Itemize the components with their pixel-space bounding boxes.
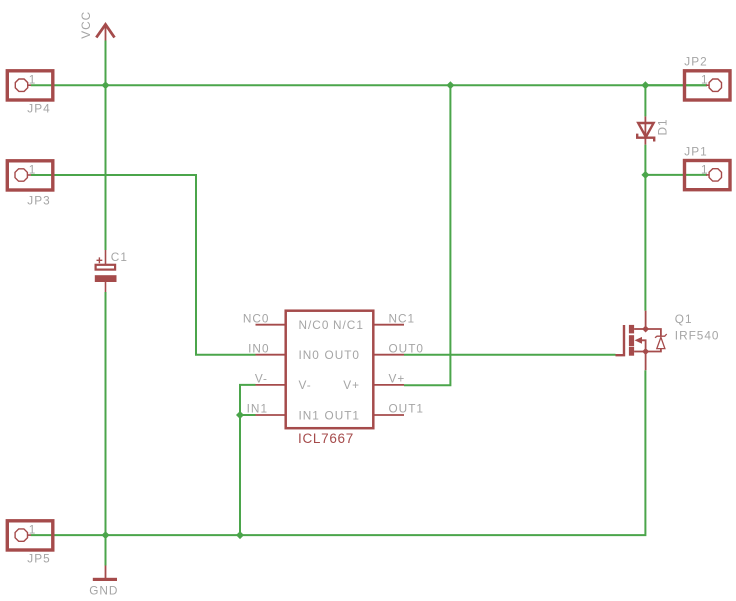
svg-text:JP5: JP5 [27, 551, 50, 565]
pin V+ stub [375, 384, 405, 386]
svg-text:1: 1 [29, 163, 37, 177]
junction D1/JP2/top-rail [641, 81, 649, 89]
svg-text:1: 1 [29, 73, 37, 87]
svg-text:OUT1: OUT1 [389, 402, 424, 416]
capacitor C1 [95, 250, 117, 292]
pin N/C1 stub [375, 324, 405, 326]
wire top rail to D1 anode [644, 85, 646, 116]
source connection [634, 351, 646, 353]
svg-text:V+: V+ [389, 372, 406, 386]
svg-text:N/C1: N/C1 [333, 318, 364, 332]
drain stem [645, 311, 647, 329]
svg-text:JP1: JP1 [684, 144, 707, 158]
body diode triangle [657, 337, 665, 348]
svg-text:Q1: Q1 [675, 312, 693, 326]
body link [642, 340, 646, 351]
wire D1 cathode to Q1 drain [644, 145, 646, 311]
wire JP3 to IN0 [31, 175, 256, 355]
connector JP2 [685, 71, 731, 100]
svg-text:D1: D1 [656, 118, 670, 135]
pin N/C0 stub [256, 324, 285, 326]
svg-text:ICL7667: ICL7667 [298, 431, 354, 446]
svg-text:JP4: JP4 [27, 102, 50, 116]
junction IN1 branch [236, 411, 244, 419]
wire JP1 branch [645, 174, 707, 176]
wire GND symbol stub [105, 535, 107, 565]
channel bar middle [629, 335, 634, 346]
drain connection [634, 328, 646, 330]
ground symbol [93, 566, 117, 582]
channel bar bottom [629, 347, 634, 356]
junction GND stub/bottom rail [102, 531, 110, 539]
wire VCC net top rail [31, 84, 707, 86]
svg-text:OUT0: OUT0 [325, 348, 360, 362]
diode D1 (zener) [637, 116, 654, 144]
transistor Q1 IRF540 [616, 311, 667, 371]
pin OUT0 stub [375, 354, 405, 356]
svg-text:V+: V+ [343, 378, 360, 392]
connector JP4 [7, 71, 53, 100]
junction JP1 branch [641, 171, 649, 179]
gate lead [616, 325, 625, 355]
wire V+ riser to top rail [404, 85, 450, 385]
op-amp/driver IC U1 ICL7667 body [286, 311, 374, 429]
svg-text:NC1: NC1 [389, 311, 416, 325]
svg-text:1: 1 [29, 523, 37, 537]
svg-text:IN1: IN1 [247, 402, 268, 416]
svg-text:C1: C1 [111, 250, 128, 264]
wire VCC rail down to C1 top [105, 85, 107, 250]
source stem [645, 352, 647, 371]
junction IN1 riser/bottom rail [236, 531, 244, 539]
pin OUT1 stub [375, 414, 405, 416]
wire JP2 branch [645, 84, 707, 86]
body arrow [635, 337, 643, 344]
svg-text:N/C0: N/C0 [299, 318, 330, 332]
svg-text:JP2: JP2 [684, 55, 707, 69]
connector JP5 [7, 521, 53, 550]
wire VCC stem below arrow [105, 41, 107, 86]
svg-text:IN1: IN1 [299, 408, 320, 422]
pin V- stub [256, 384, 285, 386]
wire IN1 branch [240, 414, 256, 416]
svg-text:1: 1 [701, 73, 709, 87]
channel bar top [629, 325, 634, 334]
drain junction [642, 326, 649, 333]
wire C1 bottom to GND rail [105, 292, 107, 535]
svg-text:OUT0: OUT0 [389, 341, 424, 355]
junction VCC/top-rail [102, 81, 110, 89]
svg-text:IN0: IN0 [299, 348, 320, 362]
VCC symbol arrow [96, 25, 114, 41]
source junction [642, 348, 649, 355]
svg-text:V-: V- [255, 372, 268, 386]
wire bottom GND rail [31, 370, 646, 535]
pin IN1 stub [256, 414, 285, 416]
connector JP1 [685, 161, 731, 190]
connector JP3 [7, 161, 53, 190]
pin IN0 stub [256, 354, 285, 356]
body diode zener bar [655, 334, 667, 338]
wire OUT0 to Q1 gate [404, 354, 616, 356]
svg-text:IRF540: IRF540 [675, 328, 720, 342]
junction V+ riser/top-rail [446, 81, 454, 89]
svg-text:JP3: JP3 [27, 194, 50, 208]
svg-text:VCC: VCC [79, 11, 93, 39]
svg-text:V-: V- [299, 378, 312, 392]
svg-text:1: 1 [701, 162, 709, 176]
svg-text:OUT1: OUT1 [325, 408, 360, 422]
svg-text:IN0: IN0 [248, 341, 269, 355]
wire V- branch [240, 385, 256, 535]
svg-text:GND: GND [89, 583, 118, 597]
body diode branch [646, 329, 661, 352]
svg-text:NC0: NC0 [243, 311, 270, 325]
